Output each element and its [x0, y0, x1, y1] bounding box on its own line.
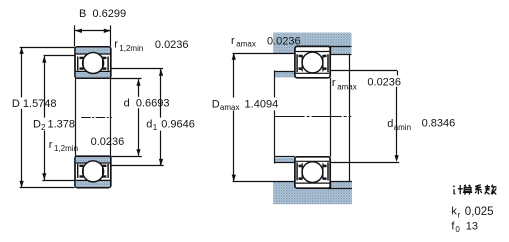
- svg-text:D 1.5748: D 1.5748: [12, 98, 57, 110]
- label d1 0.9646: [145, 118, 197, 131]
- dimension D extension lines: [20, 47, 75, 49]
- svg-text:amin: amin: [394, 123, 411, 132]
- svg-text:d 0.6693: d 0.6693: [124, 97, 170, 109]
- bearing section bottom half (left view): [75, 156, 111, 187]
- svg-text:1,2min: 1,2min: [119, 44, 143, 53]
- svg-text:2: 2: [41, 123, 46, 132]
- bore line left: [75, 78, 77, 156]
- svg-text:1,2min: 1,2min: [54, 144, 78, 153]
- bearing section top half (right view): [295, 46, 330, 77]
- svg-text:0.0236: 0.0236: [267, 36, 301, 48]
- dimension D line: [21, 47, 23, 187]
- svg-text:r: r: [49, 139, 53, 151]
- svg-text:D: D: [212, 98, 220, 110]
- label D2 1.378: [32, 118, 73, 131]
- bearing section bottom half (right view): [295, 157, 330, 188]
- da reference line top: [330, 70, 397, 72]
- bore line right: [110, 78, 112, 156]
- svg-text:0.9646: 0.9646: [158, 118, 195, 130]
- dimension d1 extension lines: [111, 68, 163, 70]
- svg-text:1.378: 1.378: [48, 118, 76, 130]
- svg-text:0.0236: 0.0236: [367, 77, 401, 89]
- svg-text:r: r: [332, 77, 336, 89]
- svg-text:r: r: [114, 39, 118, 51]
- housing section bottom: [273, 182, 352, 205]
- svg-text:amax: amax: [220, 103, 240, 112]
- dimension Damax extension lines: [233, 53, 296, 55]
- 计: [453, 185, 462, 194]
- housing wall line: [349, 54, 351, 182]
- dimension B extension lines: [74, 25, 76, 46]
- dimension d extension lines: [111, 78, 142, 80]
- centerline (left view): [81, 117, 112, 119]
- label 计算系数 (calculation factors): [453, 185, 496, 195]
- svg-text:r: r: [458, 210, 461, 219]
- centerline (right view): [275, 116, 352, 118]
- svg-text:0.8346: 0.8346: [422, 118, 456, 130]
- shaft shoulder top: [275, 72, 295, 77]
- label d 0.6693: [123, 97, 169, 108]
- svg-text:k: k: [451, 206, 457, 218]
- svg-text:13: 13: [466, 221, 478, 233]
- dimension d1 line: [160, 69, 162, 165]
- dimension damin line: [396, 87, 398, 160]
- svg-text:d: d: [146, 118, 152, 130]
- dimension d line: [138, 79, 140, 155]
- svg-text:0,025: 0,025: [465, 206, 494, 218]
- svg-text:amax: amax: [236, 40, 256, 49]
- svg-text:amax: amax: [337, 82, 357, 91]
- shaft boundary line: [274, 70, 276, 97]
- bore line right view: [330, 78, 332, 157]
- svg-text:0.0236: 0.0236: [155, 39, 189, 51]
- dimension D2 line: [44, 56, 46, 180]
- label Damax 1.4094: [211, 98, 282, 111]
- dimension D2 extension lines: [44, 55, 75, 57]
- housing section top: [273, 33, 351, 54]
- svg-text:0: 0: [455, 225, 460, 234]
- 算: [463, 185, 472, 195]
- shaft shoulder bottom: [275, 158, 295, 163]
- svg-text:B 0.6299: B 0.6299: [79, 8, 126, 20]
- bearing section top half (left view): [75, 47, 111, 78]
- 系: [475, 185, 482, 195]
- 数: [485, 185, 497, 195]
- svg-text:D: D: [33, 118, 41, 130]
- label D 1.5748: [11, 97, 55, 108]
- dimension B line: [75, 30, 111, 32]
- svg-text:1.4094: 1.4094: [242, 98, 279, 110]
- svg-text:d: d: [387, 118, 393, 130]
- da reference line bottom: [330, 162, 399, 164]
- svg-text:0.0236: 0.0236: [91, 136, 125, 148]
- svg-text:r: r: [231, 35, 235, 47]
- svg-text:1: 1: [153, 123, 158, 132]
- dimension Damax line: [233, 53, 235, 181]
